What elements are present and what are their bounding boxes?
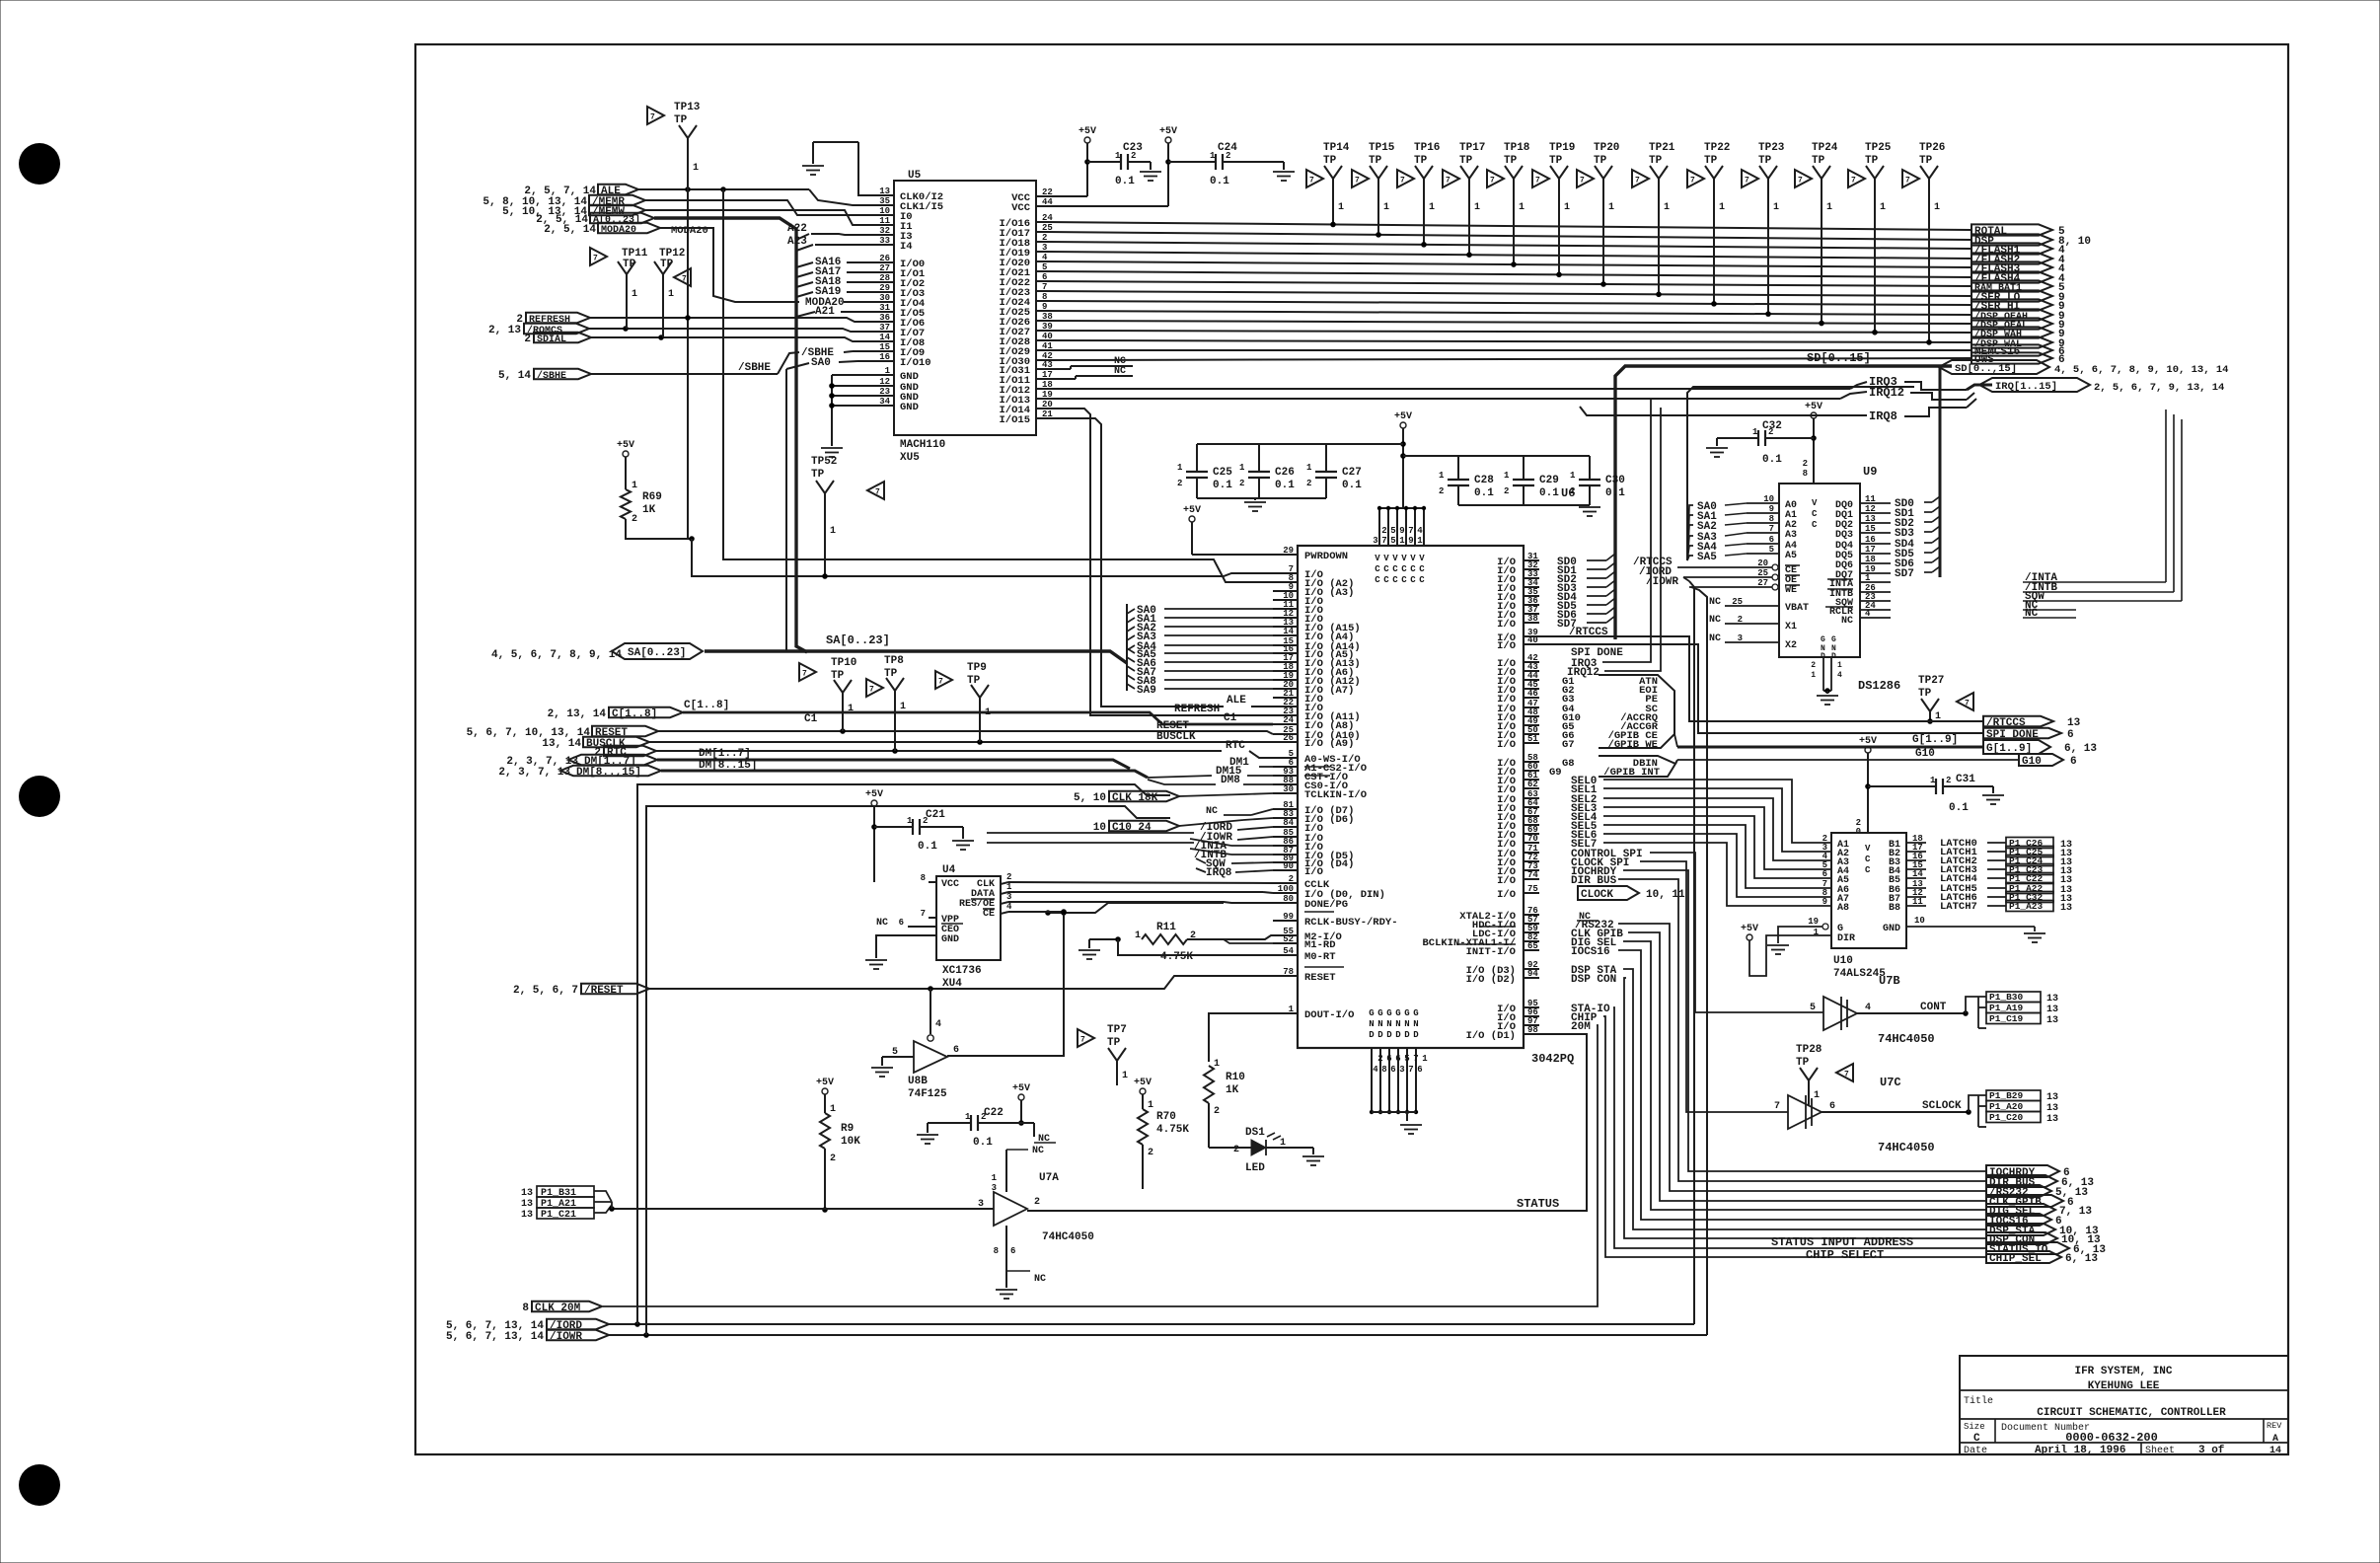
svg-text:13: 13 [2060,903,2072,914]
svg-text:20: 20 [1757,558,1768,568]
wire BUSCLK [649,741,1273,743]
svg-text:SDIAL: SDIAL [537,335,566,345]
punch hole middle [19,776,60,817]
svg-text:2, 3, 7, 13: 2, 3, 7, 13 [498,767,570,779]
svg-text:84: 84 [1283,818,1294,828]
svg-text:DS1: DS1 [1245,1127,1265,1139]
tap G10 output [2019,754,2063,766]
wire U4 GND [876,935,936,958]
svg-text:46: 46 [1527,689,1538,699]
svg-text:P1_A20: P1_A20 [1989,1101,2024,1112]
wire vertical 733 [723,189,1273,582]
wire /IORD long [609,1323,1694,1325]
svg-text:/RTCCS: /RTCCS [1569,627,1608,638]
wire STATUS [1027,1034,1587,1211]
wire DONE/PG stub [1048,903,1224,913]
capacitor C25 [1196,444,1198,472]
svg-text:32: 32 [879,226,890,236]
svg-text:G: G [1395,1008,1400,1018]
svg-text:12: 12 [879,377,890,387]
svg-text:N: N [1404,1019,1409,1029]
svg-text:STATUS INPUT ADDRESS: STATUS INPUT ADDRESS [1771,1235,1913,1249]
wire G bus [1677,746,1983,749]
svg-text:I/O: I/O [1497,889,1516,901]
svg-text:VBAT: VBAT [1785,603,1809,614]
svg-text:74HC4050: 74HC4050 [1042,1231,1094,1243]
svg-text:P1_C21: P1_C21 [541,1210,576,1221]
svg-text:7: 7 [1400,177,1405,186]
svg-text:N: N [1369,1019,1374,1029]
svg-text:4: 4 [1006,902,1012,912]
svg-text:I/O: I/O [1497,619,1516,631]
svg-text:TP15: TP15 [1369,142,1395,154]
svg-text:U10: U10 [1833,955,1853,967]
svg-text:2: 2 [524,334,531,345]
sheet ref triangle TP27 [1957,693,1973,710]
svg-text:TP: TP [1369,155,1382,167]
wire REFRESH [589,318,857,322]
svg-text:2: 2 [1214,1106,1220,1117]
svg-text:TP17: TP17 [1459,142,1485,154]
svg-text:6: 6 [2070,756,2077,768]
svg-text:34: 34 [879,397,890,407]
svg-text:G: G [1386,1008,1391,1018]
svg-text:C31: C31 [1956,774,1975,785]
wire bus DSP [1046,232,1971,240]
wire bus /DSP_WAL [1046,340,1971,342]
svg-text:DQ3: DQ3 [1835,530,1853,541]
svg-text:25: 25 [1732,597,1743,607]
svg-text:A3: A3 [1785,530,1797,541]
ground U7A [996,1289,1017,1291]
svg-text:A21: A21 [815,306,835,318]
svg-text:VCC: VCC [1011,202,1031,214]
svg-text:1: 1 [985,707,991,718]
svg-text:6: 6 [1829,1101,1835,1112]
svg-text:TP26: TP26 [1919,142,1945,154]
svg-text:12: 12 [1865,504,1876,514]
svg-text:1: 1 [1239,463,1245,473]
ground C21 [952,840,974,842]
svg-text:I/O: I/O [1304,866,1323,878]
svg-text:2, 13: 2, 13 [488,325,521,336]
svg-text:G: G [1831,635,1836,644]
sheet ref triangle TP28 [1836,1064,1853,1081]
svg-text:TP: TP [1323,155,1337,167]
wire U4 CE to U8B [1001,912,1008,914]
svg-text:+5V: +5V [1183,505,1201,516]
svg-text:1: 1 [900,702,906,712]
svg-text:I/O15: I/O15 [999,414,1030,426]
tap CLK_GPIB output [1986,1195,2063,1207]
svg-text:27: 27 [879,263,890,273]
svg-text:1: 1 [1570,471,1576,481]
svg-text:C23: C23 [1123,142,1143,154]
svg-text:D: D [1377,1030,1383,1040]
wire /MEMR [645,200,857,215]
svg-text:7: 7 [1446,177,1450,186]
svg-text:6: 6 [1822,869,1827,879]
tap ROTAL output [1971,224,2052,235]
ground C32 [1706,447,1728,449]
svg-text:TP: TP [1459,155,1473,167]
svg-text:1: 1 [1474,202,1480,213]
svg-text:99: 99 [1283,912,1294,922]
svg-text:6, 13: 6, 13 [2065,1253,2098,1265]
svg-text:11: 11 [1865,494,1876,504]
wire SA fan [1126,604,1128,691]
wire cap bottoms 1 [1197,497,1326,499]
svg-text:+5V: +5V [1134,1078,1152,1088]
svg-text:TP13: TP13 [674,102,701,113]
wire SA0 to U5 [785,369,787,651]
svg-text:11: 11 [879,216,890,226]
wire ALE vertical [687,189,689,539]
svg-text:7: 7 [1851,177,1856,186]
svg-text:6: 6 [899,918,904,928]
svg-text:2: 2 [1306,479,1311,488]
svg-text:16: 16 [879,352,890,362]
svg-text:1: 1 [1006,882,1012,892]
svg-text:6: 6 [1010,1246,1015,1256]
svg-text:/SBHE: /SBHE [738,362,771,374]
svg-text:4: 4 [1837,671,1842,680]
svg-text:1: 1 [1719,202,1725,213]
svg-text:DM[8..,15]: DM[8..,15] [576,767,641,779]
wire U7C output SCLOCK [1822,1111,1969,1113]
sheet ref triangle TP19 [1532,170,1549,187]
wire U7A input [612,1208,994,1210]
svg-text:G10: G10 [1915,748,1935,760]
svg-text:4.75K: 4.75K [1160,951,1193,963]
svg-text:TP24: TP24 [1812,142,1838,154]
svg-text:RCLK-BUSY-/RDY-: RCLK-BUSY-/RDY- [1304,917,1398,929]
wire loop outer [637,784,1170,1324]
svg-text:+5V: +5V [1159,126,1177,137]
svg-text:7: 7 [1309,177,1314,186]
svg-text:1: 1 [1148,1100,1153,1111]
svg-text:D: D [1404,1030,1410,1040]
svg-text:V: V [1392,554,1398,563]
svg-text:8: 8 [1803,469,1808,479]
svg-text:0.1: 0.1 [1949,802,1969,814]
svg-text:13: 13 [521,1188,533,1199]
svg-text:C: C [1865,855,1871,864]
svg-text:7: 7 [1535,177,1540,186]
svg-text:+5V: +5V [1741,924,1758,934]
svg-text:M1-RD: M1-RD [1304,939,1336,951]
svg-text:NC: NC [1709,633,1721,644]
svg-text:20M: 20M [1571,1021,1591,1033]
svg-text:M0-RT: M0-RT [1304,951,1336,963]
wire bus /SER_LO [1046,291,1971,296]
svg-text:1: 1 [1210,151,1216,161]
svg-text:C22: C22 [984,1107,1004,1119]
svg-text:Sheet: Sheet [2145,1445,2175,1456]
svg-text:NC: NC [1206,806,1218,817]
svg-text:SA19: SA19 [815,286,841,298]
wire INTA risers [2076,581,2166,583]
svg-text:2: 2 [1034,1197,1040,1208]
wire G10 [1677,759,2019,761]
svg-text:C29: C29 [1539,475,1559,486]
svg-text:C: C [1392,575,1398,585]
sheet ref triangle TP25 [1848,170,1865,187]
svg-text:0000-0632-200: 0000-0632-200 [2065,1431,2158,1445]
svg-text:SA[0..23]: SA[0..23] [628,647,686,659]
svg-text:TP10: TP10 [831,657,856,669]
svg-text:U6: U6 [1561,486,1575,500]
ground CLK0 tie [802,165,824,167]
svg-text:35: 35 [879,196,890,206]
svg-text:3: 3 [992,1183,997,1193]
svg-text:2: 2 [1239,479,1244,488]
svg-text:13: 13 [521,1210,533,1221]
capacitor C24 [1167,143,1169,206]
wire /ROMCS [588,329,857,332]
U6 right pins [1524,559,1539,561]
svg-text:KYEHUNG LEE: KYEHUNG LEE [2088,1380,2160,1392]
ground U10 G [1767,944,1789,946]
svg-text:2: 2 [1006,872,1011,882]
svg-text:2: 2 [1377,1054,1382,1064]
svg-text:NC: NC [1841,616,1853,627]
svg-text:2: 2 [1439,486,1444,496]
svg-text:5, 14: 5, 14 [498,370,531,382]
svg-text:7: 7 [875,488,880,497]
svg-text:G8: G8 [1562,758,1575,770]
svg-text:36: 36 [879,313,890,323]
punch hole bottom [19,1464,60,1506]
sheet ref triangle TP12 [674,268,691,286]
svg-text:7: 7 [1580,177,1585,186]
svg-text:CHIP SELECT: CHIP SELECT [1806,1248,1884,1262]
svg-text:V: V [1419,554,1425,563]
resistor R70 4.75K [1142,1094,1144,1109]
wire A bus [654,218,807,652]
svg-text:10: 10 [879,206,890,216]
svg-text:0.1: 0.1 [1474,487,1494,499]
svg-text:P1_B30: P1_B30 [1989,992,2024,1003]
svg-text:SD[0..15]: SD[0..15] [1807,351,1871,365]
svg-text:REFRESH: REFRESH [1174,704,1220,715]
ground DS1 [1302,1155,1324,1157]
svg-text:5: 5 [1404,1054,1409,1064]
svg-text:SCLOCK: SCLOCK [1922,1100,1962,1112]
svg-text:1: 1 [668,289,674,300]
wire bus ROTAL [1046,222,1971,230]
svg-text:CE: CE [983,909,995,920]
wire bus /DSP_WAH [1046,331,1971,333]
svg-text:9: 9 [1769,504,1774,514]
svg-text:0.1: 0.1 [1210,176,1229,187]
tap G[1..9] output [1983,740,2050,754]
svg-text:1: 1 [1122,1071,1128,1081]
wire DM1 bus [657,760,1130,769]
wire SA19 [796,292,813,297]
svg-text:3: 3 [1006,892,1011,902]
svg-text:XU5: XU5 [900,452,920,464]
svg-text:SD[0..,15]: SD[0..,15] [1955,363,2017,375]
ground for U5 GND [821,447,843,449]
tap /FLASH4 output [1971,271,2052,282]
svg-text:1: 1 [1752,427,1758,437]
svg-text:7: 7 [1408,526,1413,536]
wire REFRESH vertical to U6 [1046,409,1273,715]
svg-text:B8: B8 [1889,903,1900,914]
wire RESET [658,731,1273,734]
ground caps 1 [1244,501,1266,503]
svg-text:7: 7 [593,255,598,263]
tap SPI_DONE output [1983,728,2061,738]
wire U4 DATA [1001,892,1008,894]
svg-text:/SBHE: /SBHE [537,370,566,382]
wire C bus [683,712,1273,724]
wire R69 to ALE vertical [626,519,692,539]
wire bus MEMCS16 [1046,349,1971,351]
svg-text:1: 1 [1519,202,1525,213]
svg-text:6: 6 [1386,1054,1391,1064]
svg-text:C[1..8]: C[1..8] [684,700,729,711]
svg-text:1: 1 [1214,1059,1220,1070]
svg-text:DIR: DIR [1837,933,1855,944]
svg-text:P1_A23: P1_A23 [2009,901,2044,912]
svg-text:1: 1 [693,163,699,174]
ground C23 [1140,171,1161,173]
svg-text:G: G [1377,1008,1382,1018]
wire bus /DSP_OEAL [1046,321,1971,324]
svg-text:C: C [1401,564,1407,574]
svg-text:NC: NC [1709,615,1721,626]
svg-text:G: G [1404,1008,1409,1018]
svg-text:NC: NC [1114,366,1126,377]
svg-text:RTC: RTC [1226,740,1245,752]
svg-text:1: 1 [830,1104,836,1115]
svg-text:1K: 1K [1226,1084,1239,1096]
svg-text:ALE: ALE [1227,695,1246,707]
svg-text:C: C [1410,575,1416,585]
capacitor C29 [1523,456,1525,480]
svg-text:U7A: U7A [1039,1172,1059,1184]
node ALE TP13 [685,186,691,192]
sheet ref triangle TP10 [799,663,816,681]
svg-text:GND: GND [1883,924,1900,934]
svg-text:7: 7 [869,686,874,695]
sheet ref triangle TP26 [1902,170,1919,187]
ground U8B [871,1067,893,1069]
svg-text:13: 13 [879,186,890,196]
svg-text:U7C: U7C [1880,1076,1901,1089]
svg-text:7: 7 [1690,177,1695,186]
svg-text:TP: TP [1919,155,1933,167]
svg-text:TP: TP [831,670,845,682]
svg-text:7: 7 [802,670,807,679]
wire ALE [638,188,809,190]
svg-text:3: 3 [1399,1065,1404,1075]
resistor R9 10K [820,1113,830,1149]
svg-text:7: 7 [1769,524,1774,534]
svg-text:1: 1 [1135,930,1141,941]
svg-text:2: 2 [1148,1148,1153,1158]
wire A21 [796,312,815,317]
svg-text:2: 2 [1738,615,1743,625]
IC U9 DS1286 [1779,484,1860,657]
svg-text:13, 14: 13, 14 [542,738,581,750]
U9 address pins [1747,502,1779,504]
svg-text:TP: TP [1414,155,1428,167]
svg-text:IOCS16: IOCS16 [1571,946,1610,958]
svg-text:13: 13 [2046,1092,2058,1103]
svg-text:G: G [1369,1008,1374,1018]
svg-text:1: 1 [632,289,637,300]
tap /FLASH2 output [1971,253,2052,263]
svg-text:A23: A23 [787,236,807,248]
svg-text:TP14: TP14 [1323,142,1350,154]
svg-text:1: 1 [885,366,891,376]
svg-text:INIT-I/O: INIT-I/O [1466,946,1516,958]
svg-text:74F125: 74F125 [908,1088,947,1100]
sheet ref triangle TP9 [935,671,952,689]
sheet ref triangle TP21 [1632,170,1649,187]
svg-text:TP25: TP25 [1865,142,1892,154]
svg-text:9: 9 [1408,536,1413,546]
svg-text:SA5: SA5 [1697,552,1717,563]
wire IRQ8 [1580,407,1867,415]
svg-text:0.1: 0.1 [1539,487,1559,499]
tap CHIP_SEL output [1986,1251,2061,1263]
svg-text:MODA20: MODA20 [601,225,636,236]
wire I/O15 to ALE [1046,418,1224,707]
svg-text:TP: TP [967,675,981,687]
sheet ref triangle TP7 [1078,1029,1094,1047]
svg-text:3: 3 [1738,633,1743,643]
capacitor C30 [1589,456,1591,480]
svg-text:2: 2 [1289,874,1294,884]
svg-text:1: 1 [1504,471,1510,481]
svg-text:U4: U4 [942,864,956,876]
svg-text:I/O (D1): I/O (D1) [1466,1030,1516,1042]
svg-text:U5: U5 [908,170,922,182]
svg-text:TP8: TP8 [884,655,904,667]
svg-text:14: 14 [2269,1446,2281,1456]
tap STATUS_IO output [1986,1242,2069,1254]
svg-text:+5V: +5V [1805,402,1822,412]
svg-text:1: 1 [992,1173,998,1183]
svg-text:4: 4 [1865,609,1871,619]
svg-text:8: 8 [1381,1065,1386,1075]
svg-text:1: 1 [1338,202,1344,213]
wire IRQ3 [1046,388,1850,390]
svg-text:13: 13 [2067,717,2081,729]
wire U6 VCC pins [1379,507,1424,509]
svg-text:2: 2 [1768,427,1773,437]
svg-text:NC: NC [1034,1274,1046,1285]
svg-text:16: 16 [1865,535,1876,545]
svg-text:P1_A19: P1_A19 [1989,1003,2024,1013]
svg-text:TP: TP [1758,155,1772,167]
svg-text:R10: R10 [1226,1072,1245,1083]
svg-text:1: 1 [1837,661,1842,670]
svg-text:TP16: TP16 [1414,142,1440,154]
svg-text:13: 13 [2046,1103,2058,1114]
svg-text:14: 14 [1912,869,1923,879]
tap /SER_HI output [1971,299,2052,310]
svg-text:30: 30 [879,293,890,303]
resistor R10 1K [1204,1066,1214,1103]
wire bus RAM_BAT1 [1046,281,1971,286]
IC U5 MACH110 XU5 [894,181,1036,435]
svg-text:30: 30 [1283,784,1294,794]
